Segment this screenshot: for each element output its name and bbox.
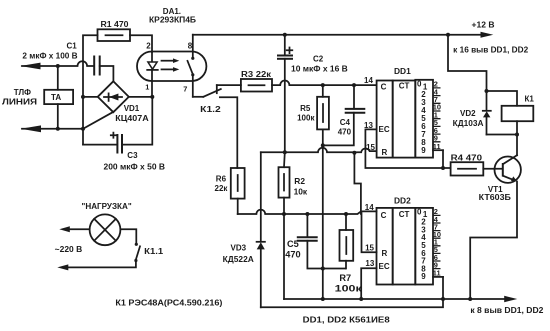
wire: diagonal from lower conductor to bridge bottom corner — [83, 112, 113, 129]
svg-text:R: R — [382, 148, 388, 157]
svg-text:К1.1: К1.1 — [144, 247, 164, 256]
svg-text:ТА: ТА — [51, 93, 61, 102]
node B: bridge right / pin1 / C3 — [150, 95, 154, 99]
svg-text:9: 9 — [421, 272, 426, 281]
svg-text:9: 9 — [421, 146, 426, 155]
wire: mains lower with arrow — [57, 261, 136, 271]
svg-text:0: 0 — [417, 207, 422, 216]
node: left bus / lower conductor — [81, 127, 85, 131]
wire: bridge right corner to node B — [129, 96, 153, 98]
wire: R3 to DD1 clock node with hop over C2 drop — [272, 81, 377, 86]
wire: DD2 clock rail y=214 with hop over VD3 line — [238, 210, 377, 214]
svg-text:470: 470 — [285, 250, 300, 260]
diode VD2 КД103А — [453, 91, 491, 135]
svg-text:ТЛФ: ТЛФ — [14, 88, 31, 97]
wire: DD1 EC feedback to output 9 (pin 11) — [365, 129, 443, 168]
node: reset rail / C2-R2 — [283, 150, 287, 154]
label: ТЛФ ЛИНИЯ — [2, 88, 37, 106]
wire: DD2 EC to ground rail — [361, 268, 376, 299]
node: clock wire / C4 — [352, 83, 356, 87]
capacitor C4 — [323, 85, 366, 145]
svg-text:2 мкФ x 100 В: 2 мкФ x 100 В — [22, 51, 77, 60]
wire: C1 right plate to bridge top corner — [100, 66, 114, 81]
svg-text:C5: C5 — [287, 239, 299, 249]
node: clock wire / R5 — [321, 83, 325, 87]
wire: R5/C4 node down to ground rail — [322, 145, 324, 299]
node: C5/R7 bottom junction on ground drop — [321, 267, 325, 271]
resistor R7 — [335, 214, 363, 294]
svg-text:10к: 10к — [294, 186, 308, 196]
wire: +12V rail — [193, 20, 529, 54]
svg-text:15: 15 — [366, 143, 375, 152]
svg-text:R5: R5 — [300, 104, 311, 113]
svg-text:КД103А: КД103А — [453, 119, 484, 128]
node: R2 bottom / DD2 clock rail — [282, 212, 286, 216]
svg-text:+12 В: +12 В — [472, 20, 495, 29]
relay contact K1.2 — [193, 85, 238, 168]
svg-text:DD1: DD1 — [394, 66, 411, 76]
node: ground rail / VD3-pin11 line — [441, 297, 445, 301]
svg-text:22к: 22к — [215, 184, 229, 193]
svg-text:200 мкФ x 50 В: 200 мкФ x 50 В — [104, 162, 166, 171]
resistor R1 — [98, 20, 131, 41]
svg-text:R3 22к: R3 22к — [241, 70, 272, 79]
resistor R2 — [279, 152, 308, 214]
wire: R1 right lead to optocoupler pin 2 — [130, 35, 152, 52]
diode bridge VD1 КЦ407А — [98, 81, 149, 123]
node: reset rail / DD2 feed — [352, 151, 356, 155]
svg-text:1: 1 — [145, 82, 149, 91]
wire: DD1 reset rail y=152 with hops — [261, 148, 377, 153]
wire: left bus to bridge left corner — [83, 96, 98, 98]
svg-text:"НАГРУЗКА": "НАГРУЗКА" — [82, 202, 132, 211]
wire: R2 line continues to ground rail corner — [283, 214, 285, 299]
node: lower conductor / TA — [56, 127, 60, 131]
node: emitter drop / ground rail — [468, 297, 472, 301]
capacitor C3 (polarized) — [104, 133, 166, 172]
svg-text:8: 8 — [188, 42, 193, 51]
node: ТЛФ line / TA junction — [56, 64, 60, 68]
node: R5/C4 junction — [321, 143, 325, 147]
node: left bus / bridge left — [81, 95, 85, 99]
wire: R1 left lead down the left bus x=83 — [83, 35, 98, 144]
resistor R3 — [217, 70, 272, 92]
wire: VD2/K1 bottom tee to VT1 collector — [487, 135, 518, 156]
svg-text:15: 15 — [365, 243, 374, 252]
svg-text:CT: CT — [399, 82, 410, 91]
svg-text:100к: 100к — [335, 284, 363, 294]
wire: C3 right lead up to node B — [122, 97, 152, 145]
wire: optocoupler pin 1 down to node B — [151, 81, 153, 97]
svg-text:К1 РЭС48А(РС4.590.216): К1 РЭС48А(РС4.590.216) — [115, 298, 222, 307]
svg-text:VD2: VD2 — [460, 109, 476, 118]
LED inside DA1 — [147, 52, 158, 81]
relay contact K1.1 — [120, 229, 163, 262]
DD1 output numbers 1-9 — [417, 80, 428, 155]
svg-text:КЦ407А: КЦ407А — [115, 114, 149, 123]
svg-text:0: 0 — [417, 80, 422, 89]
svg-text:R1 470: R1 470 — [101, 20, 130, 29]
svg-text:К1: К1 — [525, 95, 535, 104]
svg-text:~220 В: ~220 В — [55, 245, 83, 254]
svg-text:C4: C4 — [340, 118, 351, 127]
svg-text:7: 7 — [183, 85, 187, 94]
capacitor C5 — [285, 214, 345, 269]
DD1 output pin numbers and stubs — [433, 80, 443, 151]
svg-text:VD1: VD1 — [124, 104, 140, 113]
svg-text:КТ603Б: КТ603Б — [479, 193, 511, 202]
node: feedback / R4 — [441, 166, 445, 170]
capacitor C1 — [22, 41, 99, 75]
wire: C3 left lead from left bus — [83, 144, 117, 146]
wire: DD2 reset drop — [362, 213, 377, 252]
svg-text:R: R — [382, 249, 388, 258]
svg-text:C: C — [381, 83, 387, 92]
node: clock rail / C5 — [305, 212, 309, 216]
node: VD2/K1 bottom tee — [515, 133, 519, 137]
DD2 output numbers 1-9 — [417, 207, 428, 281]
node: ground rail / EC drop — [359, 297, 363, 301]
wire: C2 bottom long drop to DD1 R rail — [284, 59, 286, 153]
node: clock rail / R7 — [344, 212, 348, 216]
transistor VT1 КТ603Б — [479, 155, 521, 202]
IC DD1 К561ИЕ8 — [377, 66, 433, 158]
svg-text:R6: R6 — [216, 175, 227, 184]
DD2 output pin numbers and stubs — [433, 207, 443, 277]
optocoupler DA1 КР293КП4Б body — [137, 7, 206, 81]
svg-text:к 8 выв DD1, DD2: к 8 выв DD1, DD2 — [470, 306, 544, 315]
diode VD3 КД522А — [223, 152, 265, 307]
svg-text:CT: CT — [399, 210, 410, 219]
svg-text:13: 13 — [365, 259, 374, 268]
svg-text:C: C — [381, 211, 387, 220]
svg-text:EC: EC — [379, 125, 390, 134]
svg-text:EC: EC — [379, 262, 390, 271]
svg-text:КД522А: КД522А — [223, 255, 254, 264]
wire: telephone line upper conductor with hop over R1 drop — [20, 61, 94, 69]
wire: ground rail к 8 выв — [284, 296, 544, 315]
svg-text:ЛИНИЯ: ЛИНИЯ — [2, 97, 37, 106]
node: +12 rail / C2 — [283, 33, 287, 37]
capacitor C2 (polarized) — [277, 35, 348, 74]
svg-text:R2: R2 — [294, 176, 305, 186]
node: +12 rail / relay branch — [446, 33, 450, 37]
svg-text:C2: C2 — [313, 54, 324, 63]
svg-text:C3: C3 — [127, 151, 138, 160]
resistor R5 — [297, 85, 329, 145]
resistor R6 — [215, 168, 245, 214]
svg-text:к 16 выв DD1, DD2: к 16 выв DD1, DD2 — [453, 45, 529, 54]
optocoupler output switch (pins 8-7) — [188, 35, 195, 97]
svg-text:14: 14 — [365, 203, 374, 212]
telephone set TA — [44, 66, 73, 129]
wire: mains upper with arrow — [55, 226, 90, 254]
svg-text:10 мкФ x 16 В: 10 мкФ x 16 В — [291, 64, 348, 73]
light arrows inside DA1 — [162, 58, 180, 71]
relay coil K1 — [487, 91, 535, 135]
svg-text:100к: 100к — [297, 114, 315, 123]
wire: VD3 bottom line to DD2 pin 11 — [261, 277, 443, 307]
svg-text:2: 2 — [146, 42, 151, 51]
svg-text:C1: C1 — [67, 41, 78, 50]
svg-text:R4 470: R4 470 — [451, 154, 483, 163]
wire: relay branch from +12 rail — [448, 35, 487, 91]
wire: telephone line lower conductor — [21, 125, 83, 132]
svg-text:470: 470 — [338, 127, 352, 136]
node: VD2/K1 top tee — [485, 89, 489, 93]
svg-text:DD2: DD2 — [394, 196, 411, 206]
svg-text:VD3: VD3 — [231, 243, 247, 252]
wire: snake from reset rail to DD2 clock rail — [354, 153, 361, 214]
svg-text:КР293КП4Б: КР293КП4Б — [149, 16, 196, 25]
svg-text:R7: R7 — [339, 273, 351, 283]
IC DD2 К561ИЕ8 — [377, 196, 434, 285]
svg-text:DD1, DD2 К561ИЕ8: DD1, DD2 К561ИЕ8 — [303, 315, 390, 325]
lamp НАГРУЗКА — [82, 202, 132, 245]
svg-text:DA1.: DA1. — [163, 7, 181, 16]
resistor R4 — [443, 154, 502, 176]
wire: VT1 emitter to ground rail — [470, 182, 517, 300]
svg-text:К1.2: К1.2 — [200, 105, 221, 114]
node: ground rail / R5-C4 drop — [321, 297, 325, 301]
svg-text:14: 14 — [364, 76, 373, 85]
